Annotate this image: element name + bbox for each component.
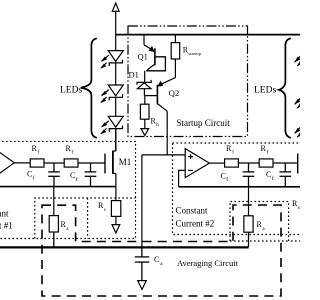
wire vref down to averaging node [141, 155, 143, 248]
emission arrows right LED 1 [295, 55, 303, 66]
inner dotted box bottom under R_a 2 [230, 240, 289, 242]
wire op-amp1 output [14, 162, 30, 164]
capacitor C_f 1b [85, 163, 97, 187]
resistor R_a 2 [244, 216, 253, 247]
wire LED2-LED3 [115, 97, 117, 116]
wire supply down to LED string [115, 11, 117, 51]
svg-text:Current #1: Current #1 [0, 221, 13, 231]
svg-text:LEDs: LEDs [60, 86, 82, 96]
constant current 2 dotted box [173, 143, 307, 235]
svg-text:f: f [72, 151, 74, 156]
svg-text:f: f [267, 151, 269, 156]
svg-text:a: a [160, 262, 163, 267]
MOSFET M1 [105, 128, 116, 187]
wire R_f 1b to M1 gate [78, 162, 105, 164]
svg-text:f: f [33, 175, 35, 182]
brace left LED group [81, 38, 97, 138]
svg-text:f: f [272, 175, 274, 182]
LED 2 left [101, 85, 124, 103]
constant current 1 dotted box [0, 142, 136, 239]
svg-text:f: f [38, 151, 40, 156]
wire minus feedback [179, 170, 186, 186]
wire vref horizontal to op-amp2 plus [142, 154, 186, 156]
op-amp U1 clipped [0, 148, 14, 177]
svg-text:C: C [266, 170, 271, 179]
op-amp U2 [185, 149, 209, 178]
resistor R_startup [171, 35, 180, 78]
wire LED3 to M1 drain [115, 129, 117, 151]
resistor R_f 2b [259, 159, 273, 167]
svg-text:startup: startup [188, 51, 201, 56]
svg-text:b: b [156, 123, 159, 128]
MOSFET M2 clipped gate bar [297, 154, 299, 174]
ground bus thick [0, 246, 249, 248]
capacitor C_f 1a [48, 163, 60, 187]
svg-text:Q1: Q1 [138, 52, 148, 62]
wire C_f 1a node down to R_a 1 [53, 187, 55, 216]
svg-text:D1: D1 [129, 69, 139, 79]
emission arrows right LED 2 [295, 98, 303, 109]
emission arrows right LED 3 [295, 127, 303, 138]
inner dotted box around R_a 2 [230, 202, 300, 242]
ground arrow below R_b [141, 129, 149, 136]
resistor R_b [140, 96, 149, 129]
svg-text:a: a [262, 227, 265, 232]
svg-text:C: C [221, 171, 226, 180]
svg-text:LEDs: LEDs [254, 86, 276, 96]
wire op-amp2 output [209, 162, 224, 164]
plus input mark [188, 154, 193, 159]
capacitor C_f 2a [243, 163, 255, 187]
wire R_f 2b to M2 gate [273, 162, 297, 164]
zener diode D1 [137, 80, 151, 89]
wire Q1 collector to D1 [144, 71, 146, 83]
resistor R_f 1a [30, 159, 44, 167]
svg-text:Q2: Q2 [169, 88, 179, 98]
svg-text:a: a [66, 227, 69, 232]
svg-text:C: C [70, 171, 75, 180]
svg-text:R: R [66, 144, 72, 153]
svg-text:Constant: Constant [0, 209, 9, 219]
transistor Q2 PNP [157, 78, 175, 111]
resistor R_s 1 [111, 187, 120, 225]
inner dotted divider between R_a 1 and R_s 1 [87, 198, 89, 239]
wire D1 to node [143, 89, 145, 96]
wire between R_f 1a and 1b [44, 162, 64, 164]
svg-text:M1: M1 [119, 157, 132, 167]
inner dotted box around R_a 1 and R_s 1 [35, 198, 136, 239]
svg-text:f: f [232, 151, 234, 156]
supply arrow [112, 3, 119, 11]
svg-text:Current #2: Current #2 [176, 219, 215, 229]
resistor R_f 1b [64, 159, 78, 167]
wire LED1-LED2 [115, 63, 117, 85]
svg-text:R: R [261, 144, 267, 153]
ground arrow below C_a [138, 281, 147, 290]
averaging circuit dashed boundary with jogs around R_a resistors [42, 205, 281, 296]
LED 1 left [101, 51, 124, 69]
svg-text:s: s [104, 208, 106, 213]
svg-text:C: C [27, 170, 32, 179]
svg-text:f: f [76, 176, 78, 183]
svg-text:s: s [298, 206, 300, 211]
capacitor C_f 2b [280, 163, 292, 187]
wire Q2 base [145, 95, 157, 97]
minus input mark [188, 169, 193, 171]
LED 3 left [101, 116, 124, 134]
capacitor C_a [135, 248, 149, 281]
svg-text:R: R [226, 144, 232, 153]
svg-text:Averaging Circuit: Averaging Circuit [177, 258, 239, 268]
svg-text:f: f [226, 176, 228, 183]
wire top rail [116, 34, 300, 36]
resistor R_f 2a [225, 159, 239, 167]
startup circuit box dash-dot [128, 26, 248, 137]
svg-text:R: R [32, 144, 38, 153]
wire between R_f 2a and 2b [238, 162, 259, 164]
wire Q2 collector down vref [166, 111, 168, 156]
sense rail left [0, 186, 116, 188]
svg-text:C: C [154, 255, 159, 264]
svg-text:Constant: Constant [176, 206, 209, 216]
resistor R_a 1 [49, 216, 58, 247]
ground arrow below R_s 1 [112, 225, 120, 233]
svg-text:Startup Circuit: Startup Circuit [177, 118, 231, 128]
sense rail right [179, 186, 300, 188]
brace right LED group [279, 38, 291, 138]
wire C_f 2a node down to R_a 2 [248, 187, 250, 216]
transistor Q1 PNP [144, 35, 165, 71]
